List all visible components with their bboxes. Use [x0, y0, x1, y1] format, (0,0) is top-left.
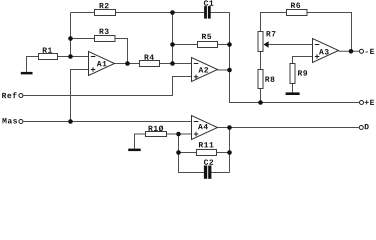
terminal Mas — [19, 120, 23, 124]
junction R10 right — [176, 132, 181, 137]
label R3 — [100, 29, 109, 34]
A3 plus tick — [315, 56, 320, 58]
wire top row left (node R2 left) — [71, 12, 95, 14]
wire R1 right to A1 inverting input — [58, 56, 89, 58]
resistor R9 — [290, 64, 295, 84]
wire R8 bottom to +E row — [260, 89, 262, 103]
resistor R3 — [95, 36, 116, 42]
junction x70 R3 row — [68, 36, 73, 41]
wire A2 plus input to Ref row — [23, 77, 191, 96]
wire R11 right — [217, 152, 230, 154]
junction A1 output — [125, 61, 130, 66]
resistor R4 — [140, 61, 160, 67]
A2 minus tick — [194, 63, 199, 65]
op-amp A3 — [313, 39, 339, 63]
junction node A R5 left — [170, 42, 175, 47]
wire R6 left down to R7 top — [261, 13, 287, 32]
capacitor C2 plates — [204, 166, 207, 179]
label R4 — [145, 55, 154, 60]
label A2 — [199, 67, 209, 72]
A4 minus tick — [194, 121, 199, 123]
op-amp A4 — [192, 116, 218, 140]
resistor R5 — [198, 42, 218, 48]
junction A2 output — [227, 68, 232, 73]
junction A4 output — [227, 125, 232, 130]
wire R11 row left — [179, 152, 197, 154]
junction node A R4 right — [170, 61, 175, 66]
label R9 — [298, 70, 307, 75]
wire R3 right drop to A1 output — [115, 39, 128, 64]
A4 plus tick — [194, 133, 199, 135]
wire R4 right to A2 inverting input — [160, 63, 192, 65]
junction R11 right — [227, 150, 232, 155]
label R6 — [291, 3, 300, 8]
label Ref — [2, 92, 16, 98]
R7 wiper arrow — [264, 41, 269, 48]
resistor R8 — [258, 70, 263, 89]
label A1 — [97, 61, 107, 66]
resistor R10 — [146, 132, 167, 137]
resistor R2 — [95, 10, 116, 16]
junction A3 output — [349, 49, 354, 54]
label R7 — [266, 31, 275, 36]
wire R10 left to ground — [135, 134, 146, 149]
wire R9 bottom to ground — [292, 84, 294, 93]
A1 minus tick — [91, 56, 96, 58]
junction R8 bottom — [258, 100, 263, 105]
junction x70 R1 row — [68, 54, 73, 59]
ground at R1 — [21, 72, 33, 75]
terminal Ref — [19, 94, 23, 98]
label R11 — [199, 142, 214, 147]
terminal D — [359, 126, 363, 130]
label C2 — [204, 159, 213, 164]
A2 plus tick — [194, 76, 199, 78]
wire C1 feedback vertical and +E row — [230, 13, 359, 103]
junction R11 left — [176, 150, 181, 155]
resistor R6 — [287, 10, 308, 16]
op-amp A1 — [89, 52, 115, 76]
label Mas — [2, 118, 17, 123]
wire R5 row left — [173, 44, 198, 46]
label +E — [365, 100, 374, 105]
junction node A top — [170, 10, 175, 15]
resistor R7 potentiometer body — [258, 32, 263, 52]
wire top row R2 right to C1 — [116, 12, 205, 14]
label R1 — [43, 48, 52, 53]
label R2 — [100, 3, 109, 8]
terminal -E — [360, 49, 364, 53]
label D — [365, 124, 369, 129]
wire R10 right to A4 plus input — [167, 133, 192, 135]
ground at R9 — [286, 92, 300, 95]
label A4 — [198, 124, 208, 129]
junction R5 right — [227, 42, 232, 47]
wire R3 row left — [71, 38, 95, 40]
A1 plus tick — [91, 69, 96, 71]
label C1 — [204, 0, 213, 5]
ground at R10 — [128, 149, 141, 152]
label -E — [366, 49, 375, 54]
label R8 — [265, 76, 274, 81]
wire C1 right to feedback corner — [211, 12, 230, 14]
wire A4 output feedback vertical — [229, 128, 231, 173]
wire R7 wiper to A3 inverting input — [268, 44, 312, 46]
wire A1 plus input down to Mas row — [71, 70, 89, 122]
op-amp A2 — [192, 58, 218, 82]
wire A3 output to -E terminal — [339, 50, 359, 52]
capacitor C1 plates — [204, 6, 207, 19]
wire R5 right — [218, 44, 230, 46]
label A3 — [319, 49, 329, 54]
junction x70 Mas row — [68, 119, 73, 124]
wire A1 output row — [115, 63, 140, 65]
wire C2 right — [211, 172, 229, 174]
wire A2 output — [218, 69, 230, 71]
wire A3 plus input to R9 top — [293, 57, 313, 64]
wire R1 left to ground — [27, 57, 39, 72]
label R10 — [149, 126, 164, 132]
resistor R1 — [39, 54, 58, 60]
wire A4 output row to D terminal — [218, 127, 359, 129]
label R5 — [202, 34, 211, 39]
wire Mas row to A4 inverting input — [23, 121, 191, 123]
resistor R11 — [197, 150, 217, 156]
wire vertical x178 to C2 left — [179, 134, 204, 173]
wire vertical x70 upper — [70, 13, 72, 57]
terminal +E — [360, 101, 364, 105]
wire R7 bottom to R8 top — [260, 52, 262, 70]
A3 minus tick — [315, 44, 320, 46]
wire vertical node A — [172, 13, 174, 64]
wire R6 right down to A3 output — [307, 13, 352, 52]
